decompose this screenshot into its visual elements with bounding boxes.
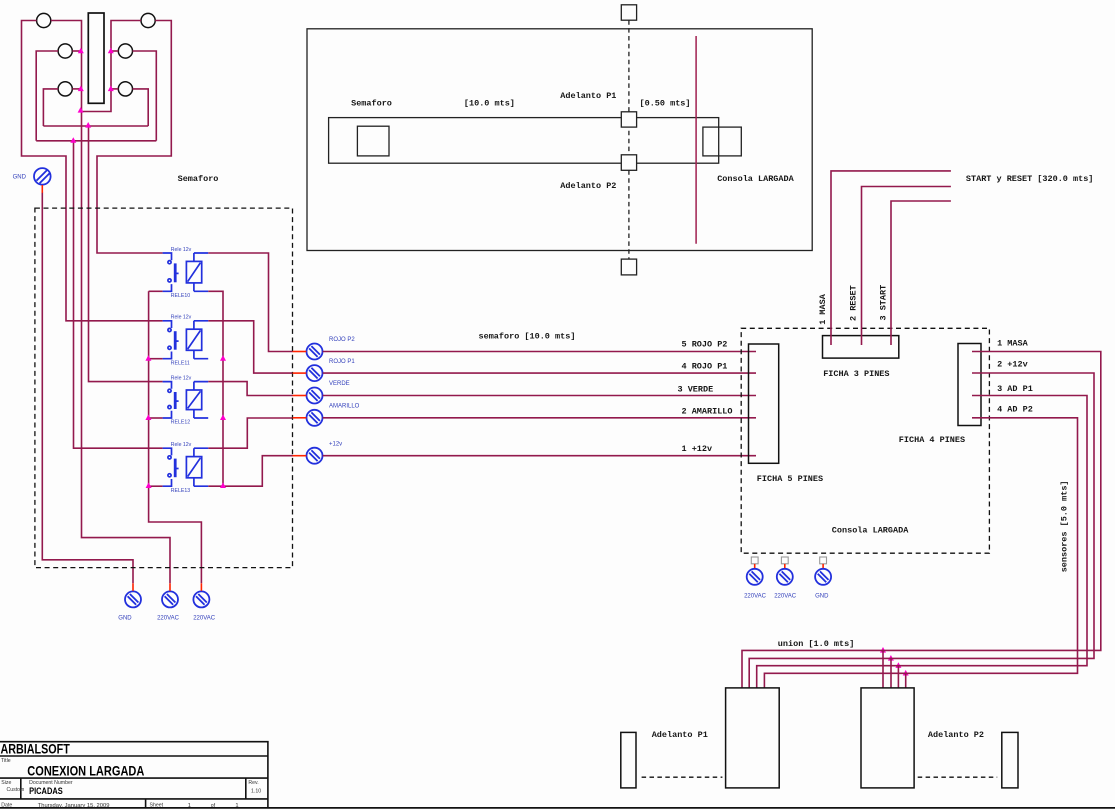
wire relay switch-bottom net to 220VAC terminal: [149, 291, 202, 583]
track lane rectangle: [329, 118, 719, 164]
wire net C branch down to relay RELE13 input: [74, 141, 163, 448]
lamp mid-right: [118, 44, 132, 58]
svg-text:[0.50 mts]: [0.50 mts]: [640, 98, 691, 108]
junction RELE11 coil bottom: [220, 355, 226, 361]
wire FICHA 4 pin 3 AD P1 to Adelanto boxes: [757, 396, 1087, 688]
svg-text:Rele 12v: Rele 12v: [171, 247, 192, 253]
traffic light body: [88, 13, 104, 103]
junction markers (magenta arrows): [70, 48, 908, 676]
svg-text:ROJO P2: ROJO P2: [329, 337, 355, 343]
terminal 220VAC consola red stub: [784, 564, 786, 569]
terminal AMARILLO red stub: [293, 417, 307, 419]
terminal ROJO P1: [307, 365, 323, 381]
wire branch 3 to Adelanto P2: [897, 666, 899, 688]
svg-text:RELE10: RELE10: [171, 293, 190, 299]
lamp mid-left: [58, 44, 72, 58]
wire GND red stub: [41, 185, 43, 193]
terminal ROJO P2 red stub: [293, 351, 307, 353]
wire GND net vertical to GND terminal: [42, 193, 133, 584]
wire RELE11 coil top to ROJO P1 terminal: [208, 321, 292, 373]
junction union wire 3 to Adelanto P2: [895, 662, 901, 668]
relay RELE10 (Rele 12v): [163, 253, 209, 291]
Adelanto P1 dashed link: [642, 776, 723, 778]
svg-text:GND: GND: [118, 616, 132, 622]
svg-text:[10.0 mts]: [10.0 mts]: [464, 98, 515, 108]
wire net A: mid-left lamp inner pin: [72, 50, 81, 52]
svg-text:semaforo [10.0 mts]: semaforo [10.0 mts]: [479, 332, 576, 342]
svg-text:Size: Size: [1, 780, 11, 786]
track layout outer frame: [307, 29, 812, 251]
wire net A: mid-right lamp inner pin: [111, 50, 118, 52]
consola pin square 220VAC: [751, 557, 758, 564]
junction RELE11 switch bottom: [145, 355, 151, 361]
semaforo relay dashed enclosure: [35, 208, 293, 567]
wire MASA to FICHA 3 pin 1: [831, 171, 951, 345]
wire net A: low-left lamp inner pin: [72, 88, 81, 90]
svg-text:VERDE: VERDE: [329, 381, 350, 387]
wire +12v to FICHA 5 PINES: [323, 455, 756, 457]
wire net B: low lamps horizontal bus: [43, 125, 148, 127]
connector FICHA 4 PINES: [958, 344, 981, 426]
wire branch 2 to Adelanto P2: [890, 658, 892, 688]
svg-text:Document Number: Document Number: [29, 780, 73, 786]
terminal GND consola red stub: [822, 564, 824, 569]
junction low-left inner pin: [78, 86, 84, 92]
wire START to FICHA 3 pin 3: [891, 201, 951, 345]
wire RELE11 switch bottom stub: [149, 358, 163, 360]
svg-text:4 ROJO P1: 4 ROJO P1: [682, 361, 728, 371]
wire VERDE to FICHA 5 PINES: [323, 395, 756, 397]
wire RELE13 coil top to AMARILLO terminal: [208, 418, 292, 448]
svg-text:4 AD P2: 4 AD P2: [997, 404, 1033, 414]
Consola LARGADA dashed enclosure: [741, 328, 989, 553]
wire branch 4 to Adelanto P2: [905, 673, 907, 688]
junction union wire 1 to Adelanto P2: [880, 647, 886, 653]
junction union wire 4 to Adelanto P2: [903, 670, 909, 676]
svg-text:Adelanto P1: Adelanto P1: [560, 91, 616, 101]
wire net B: low-left lamp outer pin: [43, 89, 58, 126]
sensor square bottom: [621, 259, 636, 275]
junction net B branch: [85, 122, 91, 128]
svg-text:Consola LARGADA: Consola LARGADA: [832, 525, 909, 535]
consola position square: [703, 127, 741, 156]
Adelanto P2 sensor bar: [1002, 732, 1018, 788]
terminal ROJO P2: [307, 344, 323, 360]
wire net A: top-right lamp left pin: [82, 21, 142, 112]
svg-text:RELE11: RELE11: [171, 360, 190, 366]
svg-text:FICHA 5 PINES: FICHA 5 PINES: [757, 474, 823, 484]
svg-text:Title: Title: [1, 758, 11, 764]
svg-text:AMARILLO: AMARILLO: [329, 404, 360, 410]
wire net A: low-right lamp inner pin: [111, 88, 118, 90]
wire coil common +12v vertical: [208, 291, 223, 486]
page bottom frame line: [0, 807, 1115, 809]
svg-text:1: 1: [188, 803, 191, 809]
sensor square top: [621, 5, 636, 20]
junction mid-left inner pin: [78, 48, 84, 54]
consola pin square GND: [820, 557, 827, 564]
svg-text:2 RESET: 2 RESET: [849, 285, 859, 321]
connector FICHA 3 PINES: [823, 336, 899, 359]
svg-text:3 AD P1: 3 AD P1: [997, 384, 1033, 394]
sensor square lower-middle: [621, 155, 636, 171]
svg-text:220VAC: 220VAC: [774, 594, 797, 600]
start line red marker: [695, 36, 697, 244]
wire branch 1 to Adelanto P2: [882, 650, 884, 688]
svg-text:3 START: 3 START: [879, 285, 889, 321]
junction common at y111: [78, 107, 84, 113]
terminal 220VAC bottom: [162, 591, 178, 607]
terminal 220VAC bottom: [193, 591, 209, 607]
consola pin square 220VAC: [781, 557, 788, 564]
svg-text:1 +12v: 1 +12v: [682, 444, 713, 454]
wire RELE10 coil top to ROJO P2 terminal: [208, 253, 292, 352]
title block frame: [0, 742, 268, 808]
lamp low-right: [118, 82, 132, 96]
Adelanto P2 dashed link: [918, 776, 998, 778]
svg-text:union [1.0 mts]: union [1.0 mts]: [778, 639, 855, 649]
svg-text:Semaforo: Semaforo: [178, 174, 219, 184]
connector FICHA 5 PINES: [749, 344, 779, 463]
terminal 220VAC consola red stub: [754, 564, 756, 569]
svg-text:+12v: +12v: [329, 441, 342, 447]
svg-text:FICHA 3 PINES: FICHA 3 PINES: [823, 369, 889, 379]
relay RELE11 (Rele 12v): [163, 321, 209, 359]
svg-text:Rele 12v: Rele 12v: [171, 375, 192, 381]
svg-text:ROJO P1: ROJO P1: [329, 359, 355, 365]
wire net D: top-left lamp left pin down to relay RELE11 input: [22, 21, 163, 321]
ground symbol GND: [34, 168, 51, 185]
junction RELE12 switch bottom: [145, 414, 151, 420]
sensor dashed line: [628, 20, 630, 259]
terminal GND consola: [815, 569, 831, 585]
lamp top-right: [141, 13, 155, 27]
sensor square upper-middle: [621, 112, 636, 127]
junction union wire 2 to Adelanto P2: [888, 655, 894, 661]
terminal ROJO P1 red stub: [293, 372, 307, 374]
terminal AMARILLO: [307, 410, 323, 426]
svg-text:1 MASA: 1 MASA: [818, 293, 828, 325]
relay RELE13 (Rele 12v): [163, 448, 209, 486]
svg-text:Sheet: Sheet: [150, 803, 164, 809]
svg-text:Semaforo: Semaforo: [351, 98, 392, 108]
svg-text:Custom: Custom: [7, 787, 25, 793]
wire ROJO P1 to FICHA 5 PINES: [323, 372, 756, 374]
terminal 220VAC consola: [747, 569, 763, 585]
svg-text:Consola LARGADA: Consola LARGADA: [717, 174, 794, 184]
svg-text:FICHA 4 PINES: FICHA 4 PINES: [899, 435, 965, 445]
wire AMARILLO to FICHA 5 PINES: [323, 417, 756, 419]
svg-text:1: 1: [235, 803, 238, 809]
svg-text:START y RESET [320.0 mts]: START y RESET [320.0 mts]: [966, 174, 1094, 184]
wire net C: mid-right lamp outer pin: [133, 51, 157, 141]
semaforo position square: [357, 126, 389, 156]
svg-text:sensores [5.0 mts]: sensores [5.0 mts]: [1059, 480, 1069, 572]
terminal 220VAC consola: [777, 569, 793, 585]
svg-text:CONEXION LARGADA: CONEXION LARGADA: [27, 763, 144, 778]
wire RELE12 coil top to VERDE terminal: [208, 382, 292, 396]
wire FICHA 4 pin 2 +12v to Adelanto boxes: [749, 373, 1094, 688]
junction mid-right inner pin: [108, 48, 114, 54]
terminal +12v: [307, 448, 323, 464]
svg-text:Rele 12v: Rele 12v: [171, 442, 192, 448]
wire FICHA 4 pin 1 MASA to Adelanto boxes: [742, 352, 1101, 688]
terminal 220VAC bottom red stub: [200, 583, 202, 591]
wire RELE13 coil bottom to +12v terminal: [208, 456, 292, 487]
svg-text:2 AMARILLO: 2 AMARILLO: [682, 407, 733, 417]
junction low-right inner pin: [108, 86, 114, 92]
wire RELE10 switch bottom stub: [149, 290, 163, 292]
wire FICHA 4 pin 4 AD P2 to Adelanto boxes: [764, 418, 1077, 688]
svg-text:of: of: [211, 803, 216, 809]
terminal GND bottom: [125, 591, 141, 607]
wire ROJO P2 to FICHA 5 PINES: [323, 351, 756, 353]
terminal GND bottom red stub: [132, 583, 134, 591]
lamp top-left: [37, 13, 51, 27]
wire net E: top-right lamp right pin down to relay RELE10 input: [97, 21, 171, 254]
junction RELE12 coil bottom: [220, 414, 226, 420]
svg-text:RELE12: RELE12: [171, 420, 190, 426]
Adelanto P1 sensor bar: [621, 732, 636, 788]
svg-text:PICADAS: PICADAS: [29, 786, 63, 796]
svg-text:1.10: 1.10: [251, 789, 261, 795]
wire net B: low-right lamp outer pin: [133, 89, 149, 126]
svg-text:3 VERDE: 3 VERDE: [678, 384, 714, 394]
wire net C: mid-left lamp outer pin: [36, 51, 58, 141]
wire RESET to FICHA 3 pin 2: [862, 187, 951, 346]
lamp low-left: [58, 82, 72, 96]
terminal +12v red stub: [293, 455, 307, 457]
svg-text:GND: GND: [13, 175, 27, 181]
svg-text:Adelanto P2: Adelanto P2: [928, 730, 984, 740]
terminal 220VAC bottom red stub: [169, 583, 171, 591]
wire net A common: top-left lamp right pin long vertical to 220VAC terminal: [51, 21, 170, 584]
terminal VERDE: [307, 388, 323, 404]
wire RELE12 switch bottom stub: [149, 417, 163, 419]
svg-text:GND: GND: [815, 594, 829, 600]
svg-text:Rev.: Rev.: [248, 780, 258, 786]
wire RELE13 switch bottom stub: [149, 485, 163, 487]
junction net C branch: [70, 137, 76, 143]
svg-text:Date: Date: [1, 803, 12, 809]
svg-text:220VAC: 220VAC: [744, 594, 767, 600]
svg-text:220VAC: 220VAC: [157, 616, 180, 622]
svg-text:Adelanto P1: Adelanto P1: [652, 730, 708, 740]
svg-text:220VAC: 220VAC: [193, 616, 216, 622]
svg-text:Thursday, January 15, 2009: Thursday, January 15, 2009: [38, 803, 110, 809]
svg-text:Adelanto P2: Adelanto P2: [560, 181, 616, 191]
svg-text:ARBIALSOFT: ARBIALSOFT: [0, 741, 70, 757]
Adelanto P1 box: [726, 688, 780, 788]
junction RELE13 switch bottom: [146, 482, 152, 488]
svg-text:Rele 12v: Rele 12v: [171, 315, 192, 321]
svg-text:RELE13: RELE13: [171, 488, 190, 494]
Adelanto P2 box: [861, 688, 914, 788]
relay RELE12 (Rele 12v): [163, 382, 209, 418]
svg-text:5 ROJO P2: 5 ROJO P2: [682, 340, 728, 350]
junction RELE13 coil bottom: [220, 482, 226, 488]
wire net B branch down to relay RELE12 input: [89, 126, 163, 382]
wire net C: mid lamps horizontal bus: [36, 140, 156, 142]
svg-text:1 MASA: 1 MASA: [997, 338, 1029, 348]
terminal VERDE red stub: [293, 395, 307, 397]
svg-text:2 +12v: 2 +12v: [997, 360, 1028, 370]
